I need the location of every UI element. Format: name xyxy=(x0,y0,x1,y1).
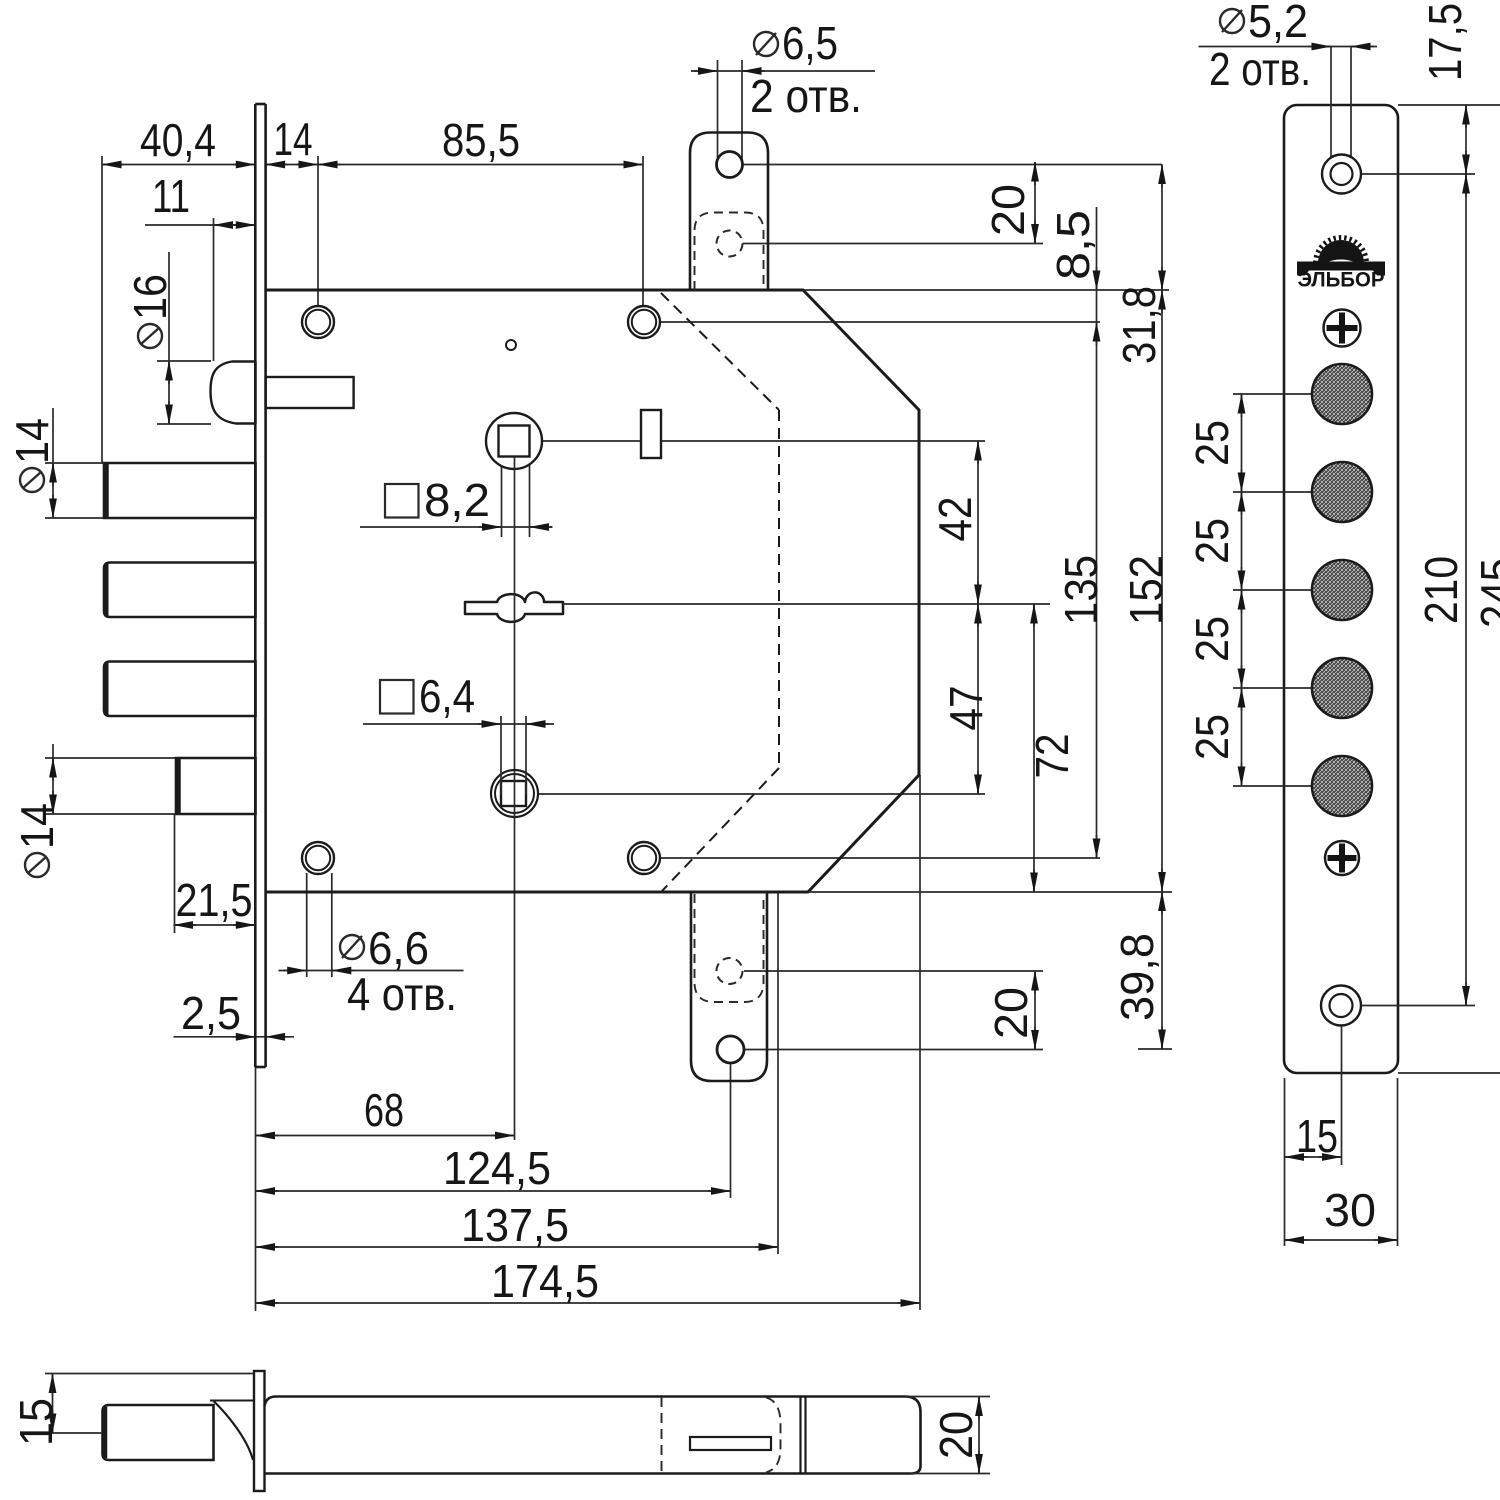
svg-text:17,5: 17,5 xyxy=(1419,3,1471,81)
svg-text:42: 42 xyxy=(929,497,981,542)
wire: extension 124,5 from bottom tab hole xyxy=(730,1064,732,1198)
svg-text:2 отв.: 2 отв. xyxy=(750,70,862,122)
dimension D16 vertical line xyxy=(168,252,170,424)
hatched bolt hole 4 xyxy=(1312,658,1372,718)
svg-text:2 отв.: 2 отв. xyxy=(1209,43,1311,95)
plate bottom screw hole xyxy=(1321,986,1361,1026)
dimension square 8,2 line xyxy=(360,526,552,528)
wire: body top line extension to 152 xyxy=(803,289,1169,291)
wire: extension pair D5,2 xyxy=(1330,47,1332,161)
svg-text:6,6: 6,6 xyxy=(368,922,429,974)
wire: extension D16 top xyxy=(157,360,211,362)
svg-text:137,5: 137,5 xyxy=(461,1199,569,1251)
plate screw top (phillips) xyxy=(1324,310,1361,347)
dimension 40,4 line xyxy=(102,164,255,166)
wire: extension plate edges down for 30 xyxy=(1284,1078,1286,1246)
svg-text:6,4: 6,4 xyxy=(419,670,475,722)
wire: tab dashed hole line to 20 xyxy=(743,243,1044,245)
deadlatch head (D shape) xyxy=(211,362,256,424)
hatched bolt hole 2 xyxy=(1312,462,1372,522)
wire: extension 15 top (bottom view) xyxy=(45,1373,254,1375)
wire: spindle center line to 42 dim xyxy=(542,440,985,442)
svg-text:20: 20 xyxy=(985,987,1037,1039)
wire: chain 25 extension lines xyxy=(1233,393,1314,395)
svg-text:245: 245 xyxy=(1471,558,1500,628)
label square 8,2 xyxy=(385,484,419,518)
svg-text:31,8: 31,8 xyxy=(1113,286,1165,364)
screw hole bottom-left 318,858 xyxy=(302,842,334,874)
spindle square 8,2 xyxy=(499,426,530,457)
wire: extension D16 bottom xyxy=(157,423,211,425)
label 135 rotated xyxy=(1055,555,1107,625)
wire: extension faceplate bottom to 174,5 xyxy=(255,1067,257,1311)
wire: extension hole column x318 xyxy=(317,156,319,307)
wire: extension pair D6,5 xyxy=(717,60,719,168)
dimension 21,5 line xyxy=(174,924,256,926)
dimension D5,2 line xyxy=(1199,46,1378,48)
label 8,5 rotated xyxy=(1047,210,1099,280)
bottom view double vertical lines xyxy=(799,1397,801,1474)
screw hole top-right 644,322 xyxy=(628,306,660,338)
svg-text:14: 14 xyxy=(11,803,63,849)
dimension 31,8 / 152 / 39,8 vertical xyxy=(1161,165,1163,1050)
dimension 68 line xyxy=(256,1135,515,1137)
bottom view latch bevel curve xyxy=(214,1401,254,1460)
svg-text:2,5: 2,5 xyxy=(181,987,241,1039)
bottom view body top edge xyxy=(265,1397,921,1474)
svg-text:25: 25 xyxy=(1186,714,1238,760)
wire: tab top hole line to 31,8 xyxy=(743,164,1163,166)
bottom tab screw hole xyxy=(717,1036,744,1063)
svg-text:135: 135 xyxy=(1055,555,1107,625)
label 210 rotated xyxy=(1415,556,1467,624)
bottom view latch bolt xyxy=(103,1405,214,1460)
svg-text:124,5: 124,5 xyxy=(443,1142,551,1194)
wire: extension 40,4 left xyxy=(101,156,103,463)
svg-text:11: 11 xyxy=(152,170,190,222)
wire: dashed vertical x779 xyxy=(778,410,780,768)
svg-text:39,8: 39,8 xyxy=(1111,933,1163,1021)
svg-text:210: 210 xyxy=(1415,556,1467,624)
svg-text:8,5: 8,5 xyxy=(1047,210,1099,280)
svg-text:20: 20 xyxy=(982,184,1034,236)
bottom tab dashed hole xyxy=(717,958,743,984)
keyhole (sash key slot) xyxy=(465,592,563,621)
wire: extension 15 bottom (bottom view) xyxy=(44,1432,102,1434)
stop rectangle near spindle xyxy=(641,410,661,458)
svg-text:15: 15 xyxy=(10,1398,62,1446)
wire: lower square center line to 47 dim xyxy=(538,793,985,795)
dimension chain 25 vertical xyxy=(1241,394,1243,786)
svg-text:5,2: 5,2 xyxy=(1248,0,1308,47)
svg-text:47: 47 xyxy=(940,686,992,731)
dimension 20 bottom vertical xyxy=(1034,971,1036,1050)
dimension 85,5 line xyxy=(318,164,643,166)
dimension 15 (bottom view) xyxy=(52,1374,54,1434)
wire: extension from bottom screw hole down xyxy=(1341,1026,1343,1165)
dimension 72 vertical xyxy=(1033,604,1035,892)
dimension square 6,4 line xyxy=(363,723,554,725)
bolt 4 (D14 lower) xyxy=(176,758,256,814)
wire: extension pair of square 8,2 xyxy=(501,457,503,537)
faceplate edge (main view) xyxy=(254,104,257,1067)
label 25 gap4 xyxy=(1186,714,1238,760)
dimension 17,5 and 210 vertical xyxy=(1465,105,1467,1006)
label D5,2 xyxy=(1220,9,1244,33)
top mounting tab xyxy=(690,133,768,291)
svg-text:4 отв.: 4 отв. xyxy=(347,968,457,1020)
hatched bolt hole 1 xyxy=(1312,364,1372,424)
svg-text:85,5: 85,5 xyxy=(442,114,520,166)
wire: keyhole center line to 47/72 dims xyxy=(563,603,1050,605)
label D6,5 xyxy=(754,32,778,56)
wire: extension 137,5 x778 xyxy=(777,892,779,1254)
plate screw bottom (phillips) xyxy=(1325,841,1359,875)
screw hole top-left 318,322 xyxy=(302,306,334,338)
label 20 top rotated xyxy=(982,184,1034,236)
label 47 rotated xyxy=(940,686,992,731)
wire: extension D14 lower edges xyxy=(45,757,176,759)
svg-text:14: 14 xyxy=(6,418,58,464)
wire: dashed lower bevel xyxy=(662,768,779,891)
label 72 rotated xyxy=(1026,734,1078,779)
bolt 1 (D14 upper) xyxy=(104,463,256,518)
svg-text:16: 16 xyxy=(124,274,176,320)
label 31,8 rotated xyxy=(1113,286,1165,364)
dimension D14 upper vertical line xyxy=(52,408,54,518)
dimension 11 line xyxy=(145,224,255,226)
svg-text:ЭЛЬБОР: ЭЛЬБОР xyxy=(1298,269,1385,292)
bottom view dashed cylinder right xyxy=(766,1398,781,1473)
screw hole bottom-right 644,858 xyxy=(628,842,660,874)
body outline dashed internals: bevel dashed xyxy=(661,293,779,410)
label D16 rotated xyxy=(124,274,176,348)
svg-text:25: 25 xyxy=(1186,420,1238,466)
label 25 gap3 xyxy=(1186,616,1238,662)
wire: top holes center line xyxy=(660,321,1100,323)
label 25 gap1 xyxy=(1186,420,1238,466)
svg-text:174,5: 174,5 xyxy=(491,1255,599,1307)
dimension 30 (plate) xyxy=(1285,1239,1398,1241)
wire: extension pair of square 6,4 xyxy=(500,716,502,795)
lower square 6,4 xyxy=(501,781,526,806)
wire: extension hole column x643 xyxy=(642,156,644,307)
label 20 bottom view rotated xyxy=(930,1411,982,1459)
bolt 2 xyxy=(104,563,256,618)
wire: extension 174,5 x920 xyxy=(919,775,921,1310)
dimension 174,5 line xyxy=(256,1302,921,1304)
bottom tab dashed strike outline xyxy=(695,894,764,1002)
dimension D6,5 line (top tab) xyxy=(691,70,875,72)
wire: bottom tab hole lines to 20 xyxy=(744,970,1043,972)
dimension D14 lower vertical line xyxy=(52,744,54,814)
top tab dashed hole xyxy=(717,231,743,257)
svg-text:68: 68 xyxy=(364,1084,404,1136)
dimension D6,6 line xyxy=(279,970,464,972)
svg-text:25: 25 xyxy=(1186,616,1238,662)
wire: vertical center line (through lower hub) xyxy=(514,770,516,1140)
wire: body bottom line extension to 152 xyxy=(808,891,1172,893)
dimension 20 top vertical xyxy=(1034,162,1036,244)
bottom view faceplate bar xyxy=(254,1371,265,1491)
wire: extension bolt edge x213.5 xyxy=(213,218,215,361)
label 25 gap2 xyxy=(1186,518,1238,564)
wire: bottom holes center line xyxy=(660,857,1100,859)
wire: extension 39,8 bottom xyxy=(1138,1048,1172,1050)
svg-text:25: 25 xyxy=(1186,518,1238,564)
plate top screw hole xyxy=(1322,155,1361,194)
label 15 bottom view rotated xyxy=(10,1398,62,1446)
bottom view slot xyxy=(690,1437,771,1450)
pin hole xyxy=(506,340,516,350)
dimension 8,5 and 135 vertical xyxy=(1096,207,1098,858)
svg-text:72: 72 xyxy=(1026,734,1078,779)
latch tongue rectangle xyxy=(266,377,354,408)
wire: extension 21,5 left xyxy=(174,814,176,933)
bottom mounting tab xyxy=(691,892,767,1081)
lock body outline xyxy=(266,290,919,892)
svg-text:20: 20 xyxy=(930,1411,982,1459)
lower hub inner ring xyxy=(495,774,534,813)
label 20 bottom rotated xyxy=(985,987,1037,1039)
svg-text:40,4: 40,4 xyxy=(140,114,216,166)
dimension 137,5 line xyxy=(256,1246,779,1248)
dimension 124,5 line xyxy=(256,1190,731,1192)
bottom view dashed line left xyxy=(661,1397,663,1473)
lower hub outer ring xyxy=(491,770,538,817)
svg-text:21,5: 21,5 xyxy=(176,874,253,926)
svg-text:14: 14 xyxy=(274,113,313,165)
label D6,6 xyxy=(340,935,364,959)
label 42 rotated xyxy=(929,497,981,542)
label D14 upper rotated xyxy=(6,418,58,492)
dimension 2,5 line xyxy=(174,1036,295,1038)
svg-text:15: 15 xyxy=(1296,1110,1338,1162)
spindle hub circle xyxy=(486,413,542,469)
top tab dashed strike outline xyxy=(695,213,764,291)
dimension 14 line xyxy=(266,164,318,166)
wire: extension D14 upper edges xyxy=(45,462,104,464)
faceplate front view plate xyxy=(1284,105,1398,1073)
label D14 lower rotated xyxy=(11,803,63,877)
label 39,8 rotated xyxy=(1111,933,1163,1021)
svg-text:8,2: 8,2 xyxy=(424,474,490,526)
label square 6,4 xyxy=(380,680,414,714)
svg-text:6,5: 6,5 xyxy=(782,17,838,69)
dimension 20 (bottom view) xyxy=(978,1397,980,1474)
label 152 rotated xyxy=(1120,555,1172,625)
svg-text:30: 30 xyxy=(1324,1184,1376,1236)
wire: plate top edge extension right xyxy=(1398,104,1500,106)
dimension 42 / 47 vertical xyxy=(977,441,979,794)
svg-text:152: 152 xyxy=(1120,555,1172,625)
wire: top hole line to 17,5/210 xyxy=(1361,173,1475,175)
bolt 3 xyxy=(104,662,256,717)
label 245 rotated (clipped) xyxy=(1471,558,1500,628)
hatched bolt hole 5 xyxy=(1312,756,1372,816)
dimension 15 (plate) xyxy=(1285,1156,1342,1158)
label 17,5 rotated xyxy=(1419,3,1471,81)
top tab screw hole D6,5 xyxy=(717,152,743,178)
wire: bottom view top/bottom extensions for 20 xyxy=(905,1396,990,1398)
hatched bolt hole 3 xyxy=(1312,560,1372,620)
wire: vertical center line of spindle/key column (upper part) xyxy=(514,457,516,770)
logo ELBOR xyxy=(1297,238,1385,292)
wire: bottom hole line to 210 xyxy=(1361,1005,1475,1007)
wire: plate bottom edge extension right xyxy=(1398,1072,1500,1074)
bottom view latch collar line xyxy=(210,1400,254,1402)
wire: extension pair D6,6 xyxy=(306,873,308,977)
